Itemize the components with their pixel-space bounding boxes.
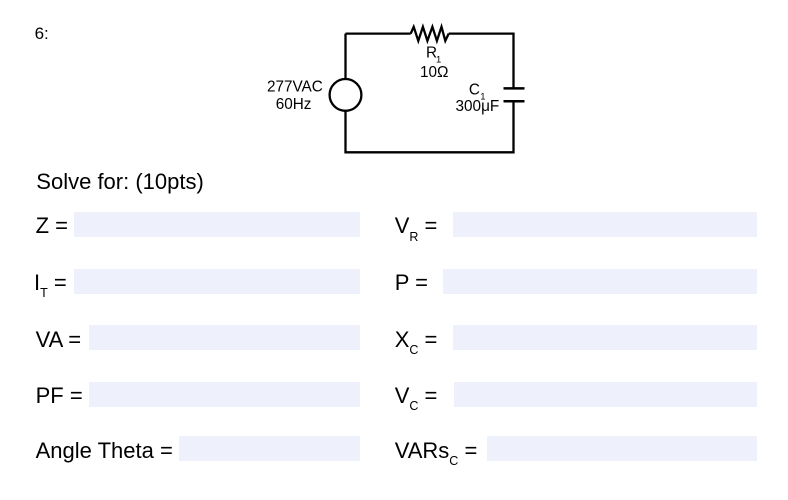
- capacitor C1 top plate: [504, 87, 525, 90]
- capacitor C1 bottom plate: [504, 100, 525, 103]
- row VR label: [395, 213, 438, 242]
- row VA blank: [89, 325, 360, 350]
- row Angle Theta label: [36, 438, 173, 463]
- wire: left-top segment: [344, 34, 346, 79]
- row VA label: [36, 327, 81, 352]
- row VARsC label: [395, 438, 478, 467]
- row IT blank: [74, 269, 360, 294]
- row XC label: [395, 327, 438, 356]
- row Z label: [36, 213, 68, 238]
- row VC label: [395, 383, 438, 412]
- resistor R1 zigzag: [411, 27, 449, 41]
- svg-text:60Hz: 60Hz: [276, 96, 312, 113]
- row XC blank: [453, 325, 758, 350]
- row VR blank: [453, 212, 757, 237]
- row PF label: [36, 383, 83, 408]
- wire: top-left segment: [346, 32, 411, 34]
- row PF blank: [89, 382, 360, 407]
- row P label: [395, 270, 428, 295]
- wire: right-bottom segment: [346, 101, 514, 152]
- row P blank: [443, 269, 757, 294]
- row VARsC blank: [487, 436, 757, 461]
- row Z blank: [74, 212, 360, 237]
- row IT label: [34, 270, 67, 299]
- heading Solve for: [36, 169, 204, 194]
- wire: top-right segment: [449, 34, 514, 89]
- svg-text:277VAC: 277VAC: [267, 79, 323, 96]
- svg-text:C: C: [469, 81, 480, 98]
- svg-text:300μF: 300μF: [456, 98, 500, 115]
- AC voltage source V1 circle: [330, 79, 362, 111]
- circuit schematic: [255, 18, 535, 160]
- question number 6:: [35, 25, 49, 42]
- svg-text:10Ω: 10Ω: [420, 64, 448, 81]
- row VC blank: [454, 382, 757, 407]
- row Angle Theta blank: [179, 436, 360, 461]
